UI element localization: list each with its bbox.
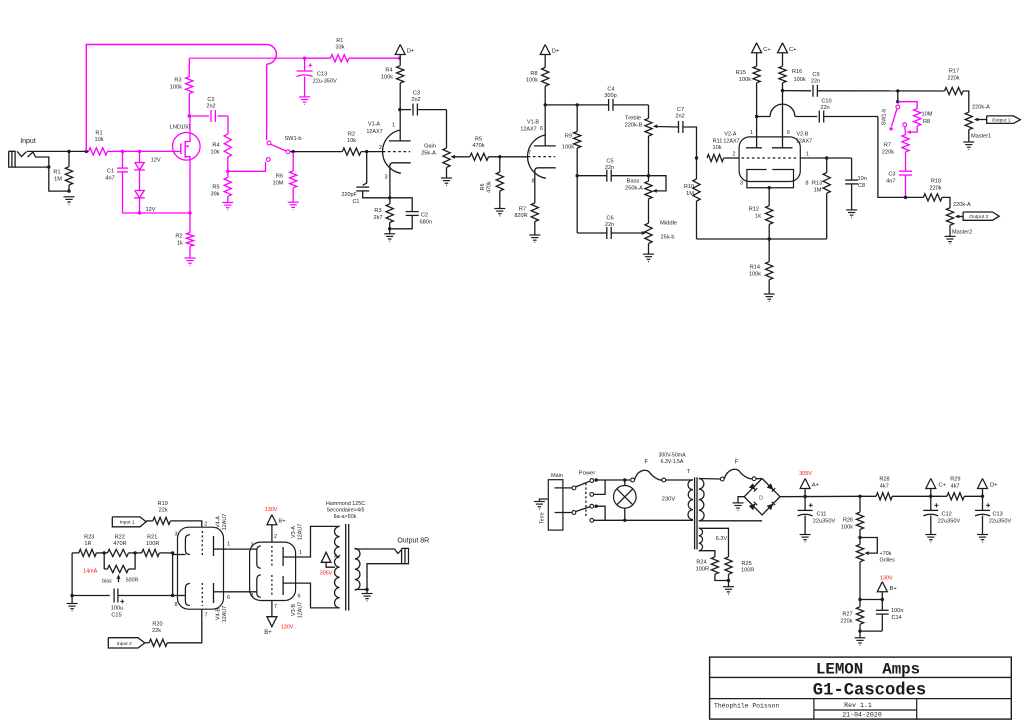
svg-text:250k-A: 250k-A [625, 186, 643, 192]
svg-text:100u: 100u [111, 606, 123, 612]
svg-text:25k-A: 25k-A [421, 151, 436, 157]
svg-text:Master2: Master2 [952, 230, 972, 236]
svg-text:Théophile Poisson: Théophile Poisson [714, 703, 779, 710]
svg-text:220k: 220k [840, 619, 852, 625]
svg-text:230V: 230V [662, 496, 676, 502]
svg-text:100R: 100R [146, 541, 159, 547]
svg-text:220k-B: 220k-B [625, 123, 643, 129]
svg-text:R5: R5 [475, 137, 482, 143]
svg-text:25k-b: 25k-b [661, 235, 675, 241]
svg-text:A+: A+ [334, 554, 341, 560]
svg-text:R7: R7 [519, 207, 526, 213]
svg-text:39k: 39k [210, 192, 219, 198]
svg-text:R19: R19 [158, 501, 168, 507]
svg-text:D+: D+ [990, 483, 998, 489]
svg-text:D+: D+ [552, 49, 560, 55]
svg-text:C8: C8 [858, 183, 865, 189]
svg-text:300V-50mA: 300V-50mA [658, 453, 686, 459]
svg-text:470k: 470k [487, 181, 493, 193]
svg-text:G1-Cascodes: G1-Cascodes [813, 682, 926, 701]
svg-text:C7: C7 [677, 107, 684, 113]
svg-text:C13: C13 [993, 512, 1003, 518]
svg-text:R5: R5 [212, 185, 219, 191]
svg-text:R21: R21 [147, 535, 157, 541]
svg-text:130V: 130V [281, 625, 294, 631]
svg-text:2n2: 2n2 [206, 104, 215, 110]
svg-text:3: 3 [740, 181, 743, 187]
svg-text:V4-A: V4-A [216, 516, 222, 528]
svg-text:Input: Input [20, 138, 36, 145]
svg-text:10k: 10k [210, 150, 219, 156]
svg-text:R11: R11 [713, 139, 723, 145]
svg-text:A+: A+ [812, 483, 820, 489]
svg-text:C5: C5 [606, 159, 613, 165]
svg-text:Hammond 125C: Hammond 125C [326, 501, 365, 507]
svg-text:12AX7: 12AX7 [796, 139, 812, 145]
svg-text:C6: C6 [606, 216, 613, 222]
svg-text:Bass: Bass [627, 179, 640, 185]
svg-text:V3-B: V3-B [291, 604, 297, 616]
svg-text:R10: R10 [684, 184, 694, 190]
svg-text:3: 3 [251, 543, 254, 549]
svg-text:33k: 33k [335, 44, 344, 50]
svg-text:R17: R17 [949, 69, 959, 75]
svg-text:Input 2: Input 2 [117, 641, 132, 647]
svg-text:Master1: Master1 [971, 134, 991, 140]
svg-text:305V: 305V [320, 571, 333, 577]
svg-text:R16: R16 [792, 69, 802, 75]
svg-text:6: 6 [298, 594, 301, 600]
svg-text:R23: R23 [84, 535, 94, 541]
svg-text:R8: R8 [923, 119, 930, 125]
svg-text:SW1-b: SW1-b [882, 109, 888, 125]
svg-text:Gain: Gain [424, 144, 436, 150]
svg-text:V4-B: V4-B [216, 608, 222, 620]
svg-text:C3: C3 [413, 91, 420, 97]
svg-text:C+: C+ [763, 47, 771, 53]
svg-text:100R: 100R [696, 567, 709, 573]
svg-text:12V: 12V [151, 158, 161, 164]
svg-text:Grilles: Grilles [880, 558, 896, 564]
svg-text:1: 1 [750, 130, 753, 136]
svg-text:D: D [759, 495, 763, 501]
svg-text:6: 6 [227, 595, 230, 601]
svg-text:B+: B+ [890, 586, 898, 592]
svg-text:R8: R8 [530, 71, 537, 77]
svg-text:R6: R6 [276, 174, 283, 180]
svg-text:V2-A: V2-A [724, 132, 736, 138]
svg-text:22n: 22n [811, 79, 820, 85]
svg-text:Output 2: Output 2 [969, 214, 988, 220]
svg-text:R18: R18 [931, 179, 941, 185]
svg-text:130V: 130V [265, 507, 278, 513]
svg-text:R1: R1 [95, 131, 102, 137]
svg-text:R28: R28 [879, 477, 889, 483]
svg-text:C+: C+ [939, 483, 947, 489]
svg-text:R7: R7 [884, 143, 891, 149]
svg-text:Output 1: Output 1 [992, 118, 1011, 124]
svg-text:Input 1: Input 1 [120, 520, 135, 526]
svg-text:220k: 220k [929, 186, 941, 192]
svg-text:2n2: 2n2 [411, 97, 420, 103]
svg-text:LND150: LND150 [170, 125, 191, 131]
svg-text:B+: B+ [278, 519, 286, 525]
svg-text:820R: 820R [514, 213, 527, 219]
svg-text:+70k: +70k [880, 551, 892, 557]
svg-text:1: 1 [299, 550, 302, 556]
svg-text:8: 8 [806, 181, 809, 187]
svg-text:Rev 1.1: Rev 1.1 [844, 702, 872, 709]
svg-text:C9: C9 [812, 72, 819, 78]
svg-text:R26: R26 [843, 518, 853, 524]
svg-text:R1: R1 [336, 38, 343, 44]
svg-text:12AU7: 12AU7 [222, 606, 228, 622]
svg-text:6.3V: 6.3V [716, 536, 728, 542]
svg-text:R3: R3 [174, 78, 181, 84]
svg-text:C15: C15 [111, 613, 121, 619]
svg-text:500R: 500R [126, 578, 139, 584]
svg-text:8a-a>50k: 8a-a>50k [334, 514, 357, 520]
svg-text:R27: R27 [842, 612, 852, 618]
svg-text:C13: C13 [317, 72, 327, 78]
svg-text:C10: C10 [821, 99, 831, 105]
svg-text:3: 3 [385, 175, 388, 181]
svg-text:220k-A: 220k-A [953, 202, 971, 208]
svg-text:C3: C3 [888, 172, 895, 178]
svg-text:220k: 220k [947, 76, 959, 82]
svg-text:C12: C12 [942, 512, 952, 518]
svg-text:R15: R15 [736, 70, 746, 76]
svg-text:2: 2 [204, 522, 207, 528]
svg-text:4k7: 4k7 [880, 484, 889, 490]
svg-text:V3-A: V3-A [291, 526, 297, 538]
svg-text:F: F [735, 460, 739, 466]
svg-text:8: 8 [251, 593, 254, 599]
svg-text:1k: 1k [755, 214, 761, 220]
svg-text:R12: R12 [749, 207, 759, 213]
svg-text:1R: 1R [84, 541, 91, 547]
svg-text:14mA: 14mA [83, 568, 97, 574]
svg-text:12AX7: 12AX7 [366, 129, 382, 135]
svg-text:Terre: Terre [540, 512, 546, 524]
svg-text:LEMON Amps: LEMON Amps [816, 661, 920, 679]
svg-text:2: 2 [733, 152, 736, 158]
svg-text:T: T [687, 469, 691, 475]
svg-text:bias: bias [102, 579, 112, 585]
svg-text:C1: C1 [353, 199, 360, 205]
svg-text:R20: R20 [152, 622, 162, 628]
svg-text:100k: 100k [170, 85, 182, 91]
svg-text:12AX7: 12AX7 [723, 139, 739, 145]
svg-text:12AU7: 12AU7 [298, 602, 304, 618]
svg-text:130V: 130V [880, 576, 893, 582]
svg-text:6: 6 [540, 126, 543, 132]
svg-text:C2: C2 [207, 97, 214, 103]
svg-text:21-04-2020: 21-04-2020 [842, 712, 882, 719]
svg-text:10k: 10k [347, 138, 356, 144]
svg-text:470k: 470k [472, 143, 484, 149]
svg-text:1M: 1M [54, 177, 62, 183]
svg-text:1: 1 [392, 123, 395, 129]
svg-text:300p: 300p [604, 93, 616, 99]
svg-text:V1-B: V1-B [527, 120, 539, 126]
svg-text:100R: 100R [741, 568, 754, 574]
svg-text:Main: Main [551, 473, 563, 479]
svg-text:7: 7 [205, 613, 208, 619]
svg-text:12AU7: 12AU7 [222, 514, 228, 530]
svg-text:1k: 1k [177, 241, 183, 247]
svg-text:220k: 220k [882, 150, 894, 156]
svg-text:100k: 100k [381, 75, 393, 81]
svg-text:4n7: 4n7 [105, 176, 114, 182]
svg-text:220pF: 220pF [342, 192, 358, 198]
svg-text:R4: R4 [212, 143, 219, 149]
svg-text:470R: 470R [113, 541, 126, 547]
svg-text:R6: R6 [480, 184, 486, 191]
svg-text:R22: R22 [115, 535, 125, 541]
svg-text:R2: R2 [348, 132, 355, 138]
svg-text:R29: R29 [950, 477, 960, 483]
svg-text:C14: C14 [892, 615, 902, 621]
svg-text:100k: 100k [526, 78, 538, 84]
svg-text:22k: 22k [159, 508, 168, 514]
svg-text:C1: C1 [107, 169, 114, 175]
svg-text:C2: C2 [421, 213, 428, 219]
svg-text:22k: 22k [152, 628, 161, 634]
svg-text:Secondaire>4/5: Secondaire>4/5 [327, 507, 365, 513]
svg-text:4k7: 4k7 [950, 484, 959, 490]
svg-text:22n: 22n [820, 105, 829, 111]
svg-text:Treble: Treble [625, 116, 641, 122]
svg-text:10k: 10k [94, 137, 103, 143]
svg-text:10M: 10M [273, 181, 284, 187]
svg-text:2n2: 2n2 [675, 114, 684, 120]
svg-text:1M: 1M [686, 191, 694, 197]
svg-text:2: 2 [274, 534, 277, 540]
svg-text:R24: R24 [696, 560, 706, 566]
svg-text:C+: C+ [789, 47, 797, 53]
svg-text:10M: 10M [922, 112, 933, 118]
svg-text:12V: 12V [146, 207, 156, 213]
svg-text:22u350V: 22u350V [813, 519, 836, 525]
svg-text:6.3V-1.5A: 6.3V-1.5A [661, 459, 684, 465]
svg-text:8: 8 [532, 179, 535, 185]
svg-text:12AU7: 12AU7 [298, 524, 304, 540]
svg-text:4n7: 4n7 [886, 179, 895, 185]
svg-text:100n: 100n [891, 608, 903, 614]
svg-text:R9: R9 [565, 134, 572, 140]
svg-text:100k: 100k [841, 525, 853, 531]
svg-text:Output 8R: Output 8R [397, 537, 429, 544]
svg-text:R3: R3 [374, 208, 381, 214]
svg-text:V2-B: V2-B [797, 132, 809, 138]
svg-text:V1-A: V1-A [368, 122, 380, 128]
svg-text:SW1-b: SW1-b [284, 136, 301, 142]
svg-text:22u-350V: 22u-350V [313, 79, 338, 85]
svg-text:22u350V: 22u350V [989, 519, 1012, 525]
svg-text:22n: 22n [605, 222, 614, 228]
svg-text:680n: 680n [420, 220, 432, 226]
svg-text:R13: R13 [812, 181, 822, 187]
svg-text:100k: 100k [739, 77, 751, 83]
svg-text:8: 8 [175, 602, 178, 608]
svg-text:Middle: Middle [660, 221, 677, 227]
svg-text:1M: 1M [814, 188, 822, 194]
svg-text:3: 3 [175, 532, 178, 538]
svg-text:R25: R25 [742, 561, 752, 567]
svg-text:R14: R14 [750, 265, 760, 271]
svg-text:7: 7 [528, 150, 531, 156]
svg-text:305V: 305V [799, 471, 812, 477]
svg-text:12AX7: 12AX7 [520, 127, 536, 133]
svg-text:R2: R2 [175, 234, 182, 240]
svg-text:100k: 100k [794, 77, 806, 83]
svg-text:220k-A: 220k-A [972, 105, 990, 111]
svg-text:R1: R1 [53, 170, 60, 176]
svg-text:B+: B+ [264, 630, 272, 636]
svg-text:10k: 10k [712, 145, 721, 151]
svg-text:22u350V: 22u350V [938, 519, 961, 525]
svg-text:100k: 100k [749, 272, 761, 278]
svg-text:C11: C11 [817, 512, 827, 518]
svg-text:1: 1 [806, 152, 809, 158]
svg-text:7: 7 [274, 604, 277, 610]
svg-text:F: F [644, 460, 648, 466]
svg-text:10n: 10n [858, 176, 867, 182]
svg-text:C4: C4 [607, 87, 614, 93]
svg-text:6: 6 [787, 130, 790, 136]
svg-text:Power: Power [579, 471, 596, 477]
svg-text:D+: D+ [407, 49, 415, 55]
svg-text:100k: 100k [562, 145, 574, 151]
svg-text:1: 1 [227, 542, 230, 548]
svg-text:R4: R4 [385, 68, 392, 74]
svg-text:2k7: 2k7 [373, 215, 382, 221]
svg-text:2: 2 [379, 145, 382, 151]
svg-text:22n: 22n [605, 165, 614, 171]
